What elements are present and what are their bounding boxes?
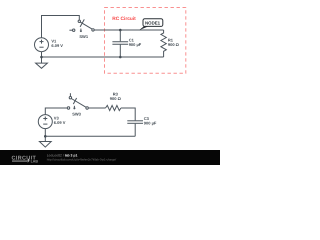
V1 value label [51, 38, 63, 48]
switch SW1 [69, 19, 94, 32]
C1 value label [129, 38, 142, 47]
wire SW3 to R3 [88, 107, 105, 109]
node junction C1 bottom [119, 56, 122, 59]
switch SW3 [67, 93, 88, 109]
footer bar [0, 150, 220, 165]
node junction V3/bottom rail [44, 135, 47, 138]
voltage source V3 [38, 115, 52, 129]
C3 value label [144, 116, 157, 125]
svg-text:900 Ω: 900 Ω [168, 42, 180, 47]
wire V1 bottom to ground [41, 52, 43, 63]
svg-text:NODE1: NODE1 [145, 21, 161, 26]
svg-text:SW3: SW3 [72, 112, 81, 117]
svg-text:6.09 V: 6.09 V [51, 43, 63, 48]
wire V1 top to SW1 [42, 16, 80, 39]
RC Circuit dashed annotation box [105, 8, 186, 74]
resistor R1 [161, 30, 166, 57]
resistor R3 [106, 105, 121, 110]
CircuitLab logo [12, 155, 39, 163]
ground [39, 142, 51, 148]
svg-text:LAB: LAB [31, 160, 39, 164]
capacitor C1 [112, 30, 128, 57]
V3 value label [54, 115, 66, 125]
node NODE1 callout [139, 19, 163, 31]
svg-text:900 µF: 900 µF [129, 42, 142, 47]
wire R3 to C3 [121, 108, 135, 120]
capacitor C3 [127, 121, 143, 137]
wire SW1 to R1 top [94, 29, 163, 31]
svg-text:900 µF: 900 µF [144, 120, 157, 125]
svg-text:900 Ω: 900 Ω [110, 96, 122, 101]
wire V3 top to SW3 [45, 108, 67, 115]
svg-text:http://circuitlab.com/c/c6v4bs: http://circuitlab.com/c/c6v4bshm2e7k/lab… [47, 157, 117, 161]
svg-text:RC Circuit: RC Circuit [112, 16, 136, 22]
bottom rail wire of bottom circuit [45, 135, 135, 137]
ground [36, 63, 48, 68]
bottom rail wire of top circuit [42, 56, 164, 58]
node junction C1 top [119, 29, 122, 32]
svg-text:6.09 V: 6.09 V [54, 120, 66, 125]
R1 value label [168, 38, 180, 48]
svg-text:SW1: SW1 [79, 34, 88, 39]
voltage source V1 [35, 38, 49, 52]
wire V3 bottom to ground [44, 129, 46, 142]
node junction V1/ground rail [40, 56, 43, 59]
R3 value label [110, 91, 122, 101]
